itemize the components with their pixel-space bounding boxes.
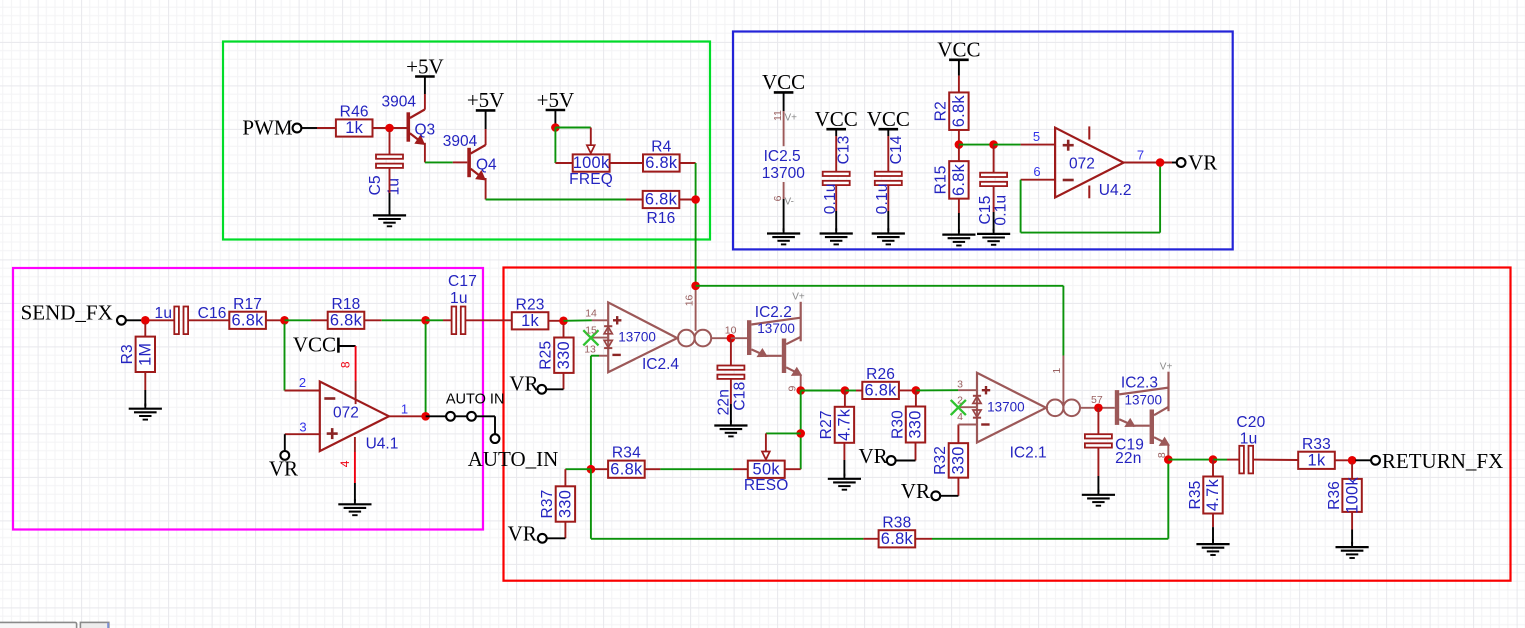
svg-text:13700: 13700 <box>618 330 656 345</box>
junction dot C15 <box>989 140 998 149</box>
ota IC2.1 <box>957 373 1080 462</box>
svg-text:C20: C20 <box>1236 414 1265 431</box>
wire Q4 collector <box>485 112 487 146</box>
svg-text:6.8k: 6.8k <box>232 312 265 330</box>
junction dot R27 top <box>841 386 850 395</box>
svg-text:1u: 1u <box>386 178 403 196</box>
pin 1 label <box>401 402 408 417</box>
ground C5 <box>373 210 406 226</box>
svg-text:50k: 50k <box>753 460 781 478</box>
junction dot IC2.2 emitter <box>796 386 805 395</box>
resistor R16 <box>643 191 680 227</box>
power VCC C13 <box>815 107 858 131</box>
wire node to R37 <box>565 468 591 470</box>
pin 14 label <box>585 307 597 319</box>
svg-text:R3: R3 <box>119 344 136 364</box>
resistor R33 <box>1298 436 1335 470</box>
svg-text:100k: 100k <box>1343 477 1361 514</box>
ground C18 <box>714 420 747 436</box>
resistor R25 <box>538 338 574 373</box>
svg-text:2: 2 <box>299 375 306 390</box>
resistor R36 <box>1326 477 1362 514</box>
svg-text:6.8k: 6.8k <box>950 163 968 196</box>
potentiometer RESO <box>744 460 789 494</box>
wire U4.1 pin3 <box>285 433 320 435</box>
wire R17 node to U4.1 pin2 <box>285 324 320 391</box>
svg-text:6.8k: 6.8k <box>645 191 678 209</box>
wire R34 left <box>591 468 608 470</box>
wire Q4 emitter to R16 <box>486 199 643 201</box>
ui input box <box>0 622 77 628</box>
ground R35 <box>1196 539 1229 555</box>
svg-text:16: 16 <box>684 294 696 306</box>
junction dot R34 node <box>587 465 596 474</box>
pin 3 label <box>299 420 306 435</box>
nc cross IC2.4 <box>583 330 598 345</box>
pin 6 label <box>1033 164 1040 179</box>
svg-text:IC2.3: IC2.3 <box>1121 374 1158 391</box>
wire R27 top <box>844 391 846 408</box>
junction dot top rail <box>691 282 700 291</box>
frame red box <box>504 268 1511 581</box>
wire C13 to ground <box>835 185 837 231</box>
wire Q3 to Q4 base <box>425 161 467 163</box>
pin 8 label IC2.3 <box>1156 452 1168 458</box>
svg-text:+5V: +5V <box>406 54 444 78</box>
svg-text:6: 6 <box>1033 164 1040 179</box>
wire RESO right <box>785 468 801 470</box>
ground U4.1 <box>338 499 371 515</box>
pin 10 label <box>725 325 737 337</box>
svg-text:U4.2: U4.2 <box>1099 182 1132 199</box>
node PWM label <box>242 115 293 139</box>
resistor R26 <box>862 366 899 400</box>
wire +5V to FREQ left <box>555 128 572 164</box>
svg-text:R38: R38 <box>882 514 911 531</box>
junction dot R46-C5 <box>385 124 394 133</box>
pin 3 label IC2.1 <box>957 379 963 391</box>
wire U4.1 pin4 <box>354 437 356 502</box>
wire R32 to VR <box>940 478 958 496</box>
svg-text:13700: 13700 <box>762 165 805 182</box>
terminal SEND_FX <box>117 316 126 325</box>
pin 2 label <box>299 375 306 390</box>
svg-text:VCC: VCC <box>293 333 336 357</box>
svg-text:10: 10 <box>725 325 737 337</box>
wire C17 to R23 <box>465 319 511 321</box>
ground R3 <box>129 404 162 420</box>
wire R33 to node <box>1335 459 1349 461</box>
svg-text:R30: R30 <box>889 410 906 439</box>
wire R37 top <box>564 469 566 486</box>
resistor R32 <box>932 443 968 478</box>
wire C20 to R33 <box>1253 459 1298 461</box>
svg-text:4: 4 <box>338 460 352 467</box>
junction dot IC2.4 out <box>727 334 736 343</box>
pin 1 label IC2.1 <box>1051 368 1063 374</box>
power VCC IC2.5 <box>762 70 805 94</box>
svg-text:V+: V+ <box>792 291 805 302</box>
ground IC2.5 <box>767 228 800 244</box>
wire R26 to node <box>898 389 916 391</box>
svg-text:VR: VR <box>508 522 537 546</box>
node SEND_FX label <box>21 301 113 325</box>
svg-text:1: 1 <box>1051 368 1063 374</box>
svg-text:6.8k: 6.8k <box>881 530 914 548</box>
wire R37 to VR <box>547 522 566 539</box>
junction dot R33-R36 <box>1348 456 1357 465</box>
svg-text:6.8k: 6.8k <box>865 382 898 400</box>
resistor R35 <box>1187 477 1223 514</box>
svg-text:3: 3 <box>299 420 306 435</box>
node VR label R32 <box>901 479 930 503</box>
power +5V Q4 <box>467 88 505 112</box>
svg-text:7: 7 <box>1137 148 1144 163</box>
svg-text:C13: C13 <box>836 135 853 164</box>
terminal VR R37 <box>538 534 547 543</box>
node AUTO IN label <box>446 392 505 408</box>
wire U4.2 pin6 <box>1021 179 1056 181</box>
svg-text:V+: V+ <box>785 112 798 123</box>
svg-text:6.8k: 6.8k <box>950 95 968 128</box>
terminal AUTO 2 <box>467 412 476 421</box>
svg-text:V-: V- <box>785 196 794 207</box>
svg-text:R37: R37 <box>539 489 556 518</box>
wire C5 to ground <box>389 168 391 213</box>
power VCC R2 <box>937 38 980 62</box>
wire U4.2 output <box>1124 162 1177 164</box>
pin V- label IC2.5 <box>785 196 794 207</box>
svg-text:R15: R15 <box>933 165 950 194</box>
wire pin13 net down <box>590 356 592 470</box>
wire C19 to ground <box>1097 448 1099 493</box>
capacitor C20 <box>1236 414 1265 474</box>
svg-text:RETURN_FX: RETURN_FX <box>1382 449 1503 473</box>
wire SEND_FX to C16 <box>126 319 175 321</box>
junction dot R2-R15 <box>955 140 964 149</box>
svg-text:4: 4 <box>957 411 963 423</box>
svg-text:1: 1 <box>401 402 408 417</box>
wire R17 to node <box>266 319 284 321</box>
pin 57 label <box>1091 394 1103 406</box>
pin 15 label <box>585 324 597 336</box>
svg-text:VR: VR <box>859 444 888 468</box>
wire R3 to ground <box>144 372 146 406</box>
wire node to R26 <box>845 390 863 392</box>
pin 2 label IC2.1 <box>957 395 963 407</box>
svg-text:R16: R16 <box>646 210 675 227</box>
pin 6 label IC2.5 <box>772 195 784 201</box>
transistor pair IC2.2 <box>747 291 805 375</box>
wire R36 top <box>1351 464 1353 479</box>
pin 11 label <box>772 110 784 121</box>
capacitor C18 <box>716 366 749 416</box>
svg-text:1k: 1k <box>1308 452 1326 470</box>
svg-text:13700: 13700 <box>757 321 795 336</box>
wire R2 node to R15 <box>958 145 960 162</box>
wire node to C15 <box>959 144 994 146</box>
wire SEND node to R3 <box>144 324 146 337</box>
wire IC2.4 pin16 <box>695 286 697 331</box>
wire VCC to R2 <box>958 61 960 92</box>
svg-text:22n: 22n <box>1115 450 1141 467</box>
power +5V FREQ <box>537 88 575 112</box>
wire R38 right <box>915 460 1168 539</box>
wire U4.1 output <box>389 415 426 417</box>
svg-text:VR: VR <box>1188 150 1217 174</box>
ground R36 <box>1336 542 1369 558</box>
svg-text:VCC: VCC <box>937 38 980 62</box>
junction dot IC2.1 out <box>1094 404 1103 413</box>
pot RESO wiper arrow <box>762 433 770 459</box>
svg-text:6.8k: 6.8k <box>645 154 678 172</box>
junction dot R17-R18 <box>280 316 289 325</box>
wire VCC to U4.1 pin8 <box>355 346 357 404</box>
terminal AUTO 3 <box>491 434 500 443</box>
pin 4 label <box>338 460 352 467</box>
svg-text:R33: R33 <box>1302 436 1331 453</box>
ui button <box>80 622 109 628</box>
power +5V Q3 <box>406 54 444 78</box>
terminal PWM <box>293 124 302 133</box>
wire IC2.3 emitter <box>1167 444 1169 459</box>
terminal VR R30 <box>887 456 896 465</box>
wire C16 to R17 <box>188 319 229 321</box>
svg-text:4.7k: 4.7k <box>1204 478 1222 511</box>
svg-text:VR: VR <box>269 456 298 480</box>
wire R2 to node <box>958 130 960 145</box>
pot FREQ wiper arrow <box>587 128 595 154</box>
svg-text:330: 330 <box>950 446 968 474</box>
wire IC2.2 emitter <box>800 374 802 390</box>
wire IC2.4 output <box>711 337 731 339</box>
svg-text:+5V: +5V <box>537 88 575 112</box>
svg-text:R4: R4 <box>651 139 671 156</box>
capacitor C17 <box>448 273 477 334</box>
wire emitter node down <box>800 391 802 470</box>
svg-text:1k: 1k <box>345 119 363 137</box>
op-amp U4.1 <box>320 382 399 453</box>
junction dot FREQ supply <box>551 123 560 132</box>
wire Q3 collector <box>424 78 426 110</box>
junction dot U4.1 output <box>421 412 430 421</box>
wire R38 net left <box>591 469 879 539</box>
svg-text:1u: 1u <box>155 305 173 322</box>
frame green box <box>223 42 710 240</box>
wire R35 to ground <box>1212 514 1214 542</box>
wire PWM to R46 <box>301 127 336 129</box>
wire node to C19 <box>1097 408 1099 435</box>
pin 4 label IC2.1 <box>957 411 963 423</box>
wire U4.2 feedback <box>1021 163 1161 233</box>
wire IC2.4 out to IC2.2 base <box>731 337 747 339</box>
svg-text:100k: 100k <box>573 154 610 172</box>
svg-text:VR: VR <box>901 479 930 503</box>
svg-text:R17: R17 <box>233 296 262 313</box>
potentiometer FREQ <box>569 154 613 188</box>
capacitor C5 <box>367 155 403 196</box>
pin 16 label <box>684 294 696 306</box>
resistor R2 <box>933 92 969 130</box>
svg-text:FREQ: FREQ <box>569 171 613 188</box>
resistor R38 <box>879 514 916 548</box>
svg-text:IC2.4: IC2.4 <box>642 356 679 373</box>
svg-text:4.7k: 4.7k <box>836 408 854 441</box>
frame magenta box <box>13 268 483 530</box>
terminal VR U4.2 <box>1177 158 1186 167</box>
capacitor C14 <box>874 135 905 214</box>
svg-text:IC2.1: IC2.1 <box>1010 445 1047 462</box>
wire R34 to RESO <box>645 468 748 470</box>
svg-text:C16: C16 <box>198 305 227 322</box>
svg-text:U4.1: U4.1 <box>366 436 399 453</box>
wire R18 to node <box>365 319 426 321</box>
resistor R34 <box>608 445 645 479</box>
svg-text:AUTO IN: AUTO IN <box>446 392 505 408</box>
ground C19 <box>1082 490 1115 506</box>
ground R27 <box>828 474 861 490</box>
svg-text:13: 13 <box>584 343 596 355</box>
frame blue box <box>733 32 1233 250</box>
svg-text:VCC: VCC <box>762 70 805 94</box>
svg-text:R23: R23 <box>516 296 545 313</box>
ground R15 <box>942 229 975 245</box>
resistor R17 <box>229 296 266 330</box>
wire node to IC2.1 pin3 <box>916 389 977 391</box>
svg-text:6.8k: 6.8k <box>330 312 363 330</box>
svg-text:13700: 13700 <box>987 399 1025 414</box>
pin V+ label IC2.5 <box>785 112 798 123</box>
capacitor C15 <box>977 173 1010 226</box>
wire C18 to ground <box>730 379 732 423</box>
svg-text:R32: R32 <box>932 446 949 475</box>
wire node to C20 <box>1213 459 1239 461</box>
capacitor C13 <box>822 135 853 214</box>
svg-text:IC2.2: IC2.2 <box>755 304 792 321</box>
ic IC2.5 power pin V- <box>783 182 785 231</box>
resistor R18 <box>328 296 365 330</box>
wire node vertical to red box <box>695 163 697 286</box>
svg-text:C17: C17 <box>448 273 477 290</box>
wire pin3 to VR <box>284 434 286 451</box>
wire R46 to Q3 base <box>373 127 407 129</box>
terminal RETURN_FX <box>1371 456 1380 465</box>
wire R35 top <box>1212 460 1214 477</box>
wire node to IC2.4 pin14 <box>564 319 609 322</box>
svg-text:PWM: PWM <box>242 115 293 139</box>
op-amp U4.2 <box>1055 126 1131 198</box>
wire R23 to node <box>548 320 563 322</box>
node VR label U4.1 <box>269 456 298 480</box>
wire wiper net <box>766 432 801 434</box>
terminal AUTO 1 <box>446 412 455 421</box>
nc cross IC2.1 <box>951 400 966 415</box>
junction dot IC2.3 emitter <box>1164 455 1173 464</box>
svg-text:R46: R46 <box>340 104 369 121</box>
power VCC C14 <box>867 107 910 131</box>
svg-text:Q3: Q3 <box>415 122 436 139</box>
ota IC2.4 <box>592 302 712 372</box>
svg-text:R25: R25 <box>538 341 555 370</box>
wire VCC to C13 <box>835 130 837 172</box>
power VCC U4.1 <box>293 333 356 357</box>
junction dot SEND_FX <box>141 316 150 325</box>
resistor R15 <box>933 161 969 199</box>
svg-text:R27: R27 <box>818 410 835 439</box>
wire R30 to VR <box>896 443 916 461</box>
wire R4 to node <box>679 162 696 164</box>
wire Q3 emitter <box>424 143 426 163</box>
junction dot wiper <box>796 429 805 438</box>
capacitor C19 <box>1085 434 1144 467</box>
transistor pair IC2.3 <box>1115 362 1173 446</box>
svg-text:13700: 13700 <box>1125 393 1163 408</box>
svg-text:3: 3 <box>957 379 963 391</box>
svg-text:VR: VR <box>509 371 538 395</box>
junction dot R18-C17 <box>421 316 430 325</box>
svg-text:330: 330 <box>907 410 925 438</box>
resistor R4 <box>643 139 680 173</box>
resistor R23 <box>512 296 549 330</box>
wire node to R18 <box>285 319 328 321</box>
ground C15 <box>977 229 1010 245</box>
svg-text:1u: 1u <box>450 290 468 307</box>
wire R32 top to IC2.1 <box>958 425 977 444</box>
wire IC2.1 output <box>1080 407 1115 409</box>
wire R25 to VR <box>546 373 563 389</box>
junction dot R23-R25 <box>559 317 568 326</box>
wire IC2.4 pin13 <box>591 355 608 357</box>
junction dot U4.2 output <box>1156 158 1165 167</box>
terminal VR R32 <box>931 491 940 500</box>
wire +5V to FREQ node <box>554 111 556 124</box>
svg-text:C15: C15 <box>977 195 994 224</box>
terminal VR R25 <box>537 385 546 394</box>
node VR label U4.2 <box>1188 150 1217 174</box>
wire C14 to ground <box>887 185 889 231</box>
svg-text:V+: V+ <box>1160 362 1173 373</box>
svg-text:VCC: VCC <box>815 107 858 131</box>
svg-text:8: 8 <box>339 361 353 368</box>
wire R27 to ground <box>843 443 845 476</box>
node VR label R25 <box>509 371 538 395</box>
resistor R37 <box>539 486 575 521</box>
svg-text:15: 15 <box>585 324 597 336</box>
svg-text:11: 11 <box>772 110 784 121</box>
resistor R27 <box>818 407 854 443</box>
transistor Q3 <box>382 94 436 145</box>
ground C13 <box>820 228 853 244</box>
pin 8 label <box>339 361 353 368</box>
svg-text:1u: 1u <box>1240 430 1258 447</box>
resistor R30 <box>889 407 925 443</box>
resistor R3 <box>119 337 155 372</box>
wire output to AUTO terminals <box>426 415 467 417</box>
wire node to U4.2 pin5 <box>994 144 1056 146</box>
node AUTO_IN label <box>468 447 559 471</box>
pin 9 label <box>787 386 799 392</box>
wire R15 to ground <box>958 199 960 232</box>
svg-text:IC2.5: IC2.5 <box>764 148 801 165</box>
svg-text:C18: C18 <box>731 382 748 411</box>
junction dot R16 node <box>691 195 700 204</box>
wire node to RETURN <box>1355 459 1371 461</box>
wire emitter to R35 node <box>1168 459 1213 461</box>
pin 13 label <box>584 343 596 355</box>
wire R46 node to C5 <box>389 131 391 155</box>
wire top rail <box>696 285 1064 287</box>
node VR label R30 <box>859 444 888 468</box>
